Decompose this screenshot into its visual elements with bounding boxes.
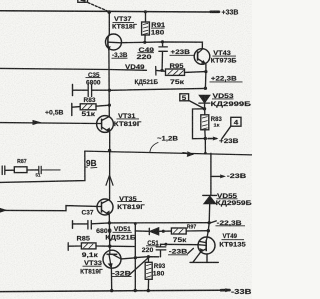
svg-text:R91: R91 (151, 22, 166, 29)
svg-text:КТ819Г: КТ819Г (80, 268, 103, 275)
svg-text:220: 220 (142, 247, 154, 254)
svg-text:VT49: VT49 (223, 233, 238, 240)
svg-text:VT33: VT33 (84, 260, 103, 267)
svg-text:VD49: VD49 (125, 64, 145, 71)
svg-text:С35: С35 (88, 72, 100, 79)
svg-text:КТ818Г: КТ818Г (112, 23, 137, 30)
svg-text:С37: С37 (82, 210, 94, 217)
svg-text:R95: R95 (170, 63, 185, 70)
svg-text:+33В: +33В (222, 10, 239, 17)
svg-text:VD53: VD53 (213, 93, 235, 100)
svg-text:-32В: -32В (112, 270, 132, 277)
svg-text:-23В: -23В (169, 249, 188, 256)
svg-text:КТ819Г: КТ819Г (117, 204, 145, 211)
svg-text:9В: 9В (86, 159, 97, 168)
svg-text:R93: R93 (154, 263, 166, 270)
svg-text:220: 220 (137, 54, 153, 61)
svg-text:С49: С49 (139, 47, 155, 54)
svg-text:R83: R83 (211, 116, 222, 123)
svg-text:R85: R85 (77, 235, 91, 242)
svg-text:-33В: -33В (231, 289, 252, 296)
svg-text:6800: 6800 (86, 80, 101, 87)
svg-text:180: 180 (151, 29, 165, 36)
svg-text:+22,3В: +22,3В (211, 76, 237, 83)
svg-text:R97: R97 (187, 225, 197, 231)
svg-text:75к: 75к (173, 237, 188, 244)
svg-text:КД521Б: КД521Б (135, 79, 159, 86)
svg-text:-23В: -23В (227, 173, 247, 180)
svg-text:VD55: VD55 (217, 193, 238, 200)
svg-text:R83: R83 (84, 97, 96, 104)
svg-text:VT37: VT37 (114, 16, 132, 23)
svg-text:КД2999Б: КД2999Б (211, 101, 252, 108)
svg-text:+23В: +23В (219, 138, 239, 145)
svg-text:51: 51 (36, 172, 42, 177)
svg-text:-3,3В: -3,3В (112, 52, 128, 59)
svg-text:+23В: +23В (171, 49, 191, 56)
svg-text:КТ819Г: КТ819Г (114, 121, 142, 128)
svg-text:-22,3В: -22,3В (217, 220, 242, 227)
svg-text:VT43: VT43 (213, 50, 231, 57)
svg-text:9,1к: 9,1к (82, 252, 99, 259)
svg-text:VT35: VT35 (119, 196, 137, 203)
svg-text:R87: R87 (17, 159, 27, 165)
svg-text:180: 180 (153, 270, 165, 277)
svg-text:КТ973Б: КТ973Б (211, 58, 237, 65)
svg-text:51к: 51к (82, 111, 97, 118)
svg-text:~1,2В: ~1,2В (157, 136, 178, 143)
svg-text:+0,5В: +0,5В (45, 110, 64, 117)
svg-text:КД2959Б: КД2959Б (216, 200, 252, 207)
svg-text:75к: 75к (170, 79, 185, 86)
svg-text:КД521Б: КД521Б (105, 235, 136, 242)
svg-text:VT31: VT31 (118, 113, 136, 120)
svg-text:VD51: VD51 (114, 226, 131, 233)
svg-text:КТ9135: КТ9135 (219, 242, 246, 249)
svg-text:1к: 1к (214, 122, 221, 128)
